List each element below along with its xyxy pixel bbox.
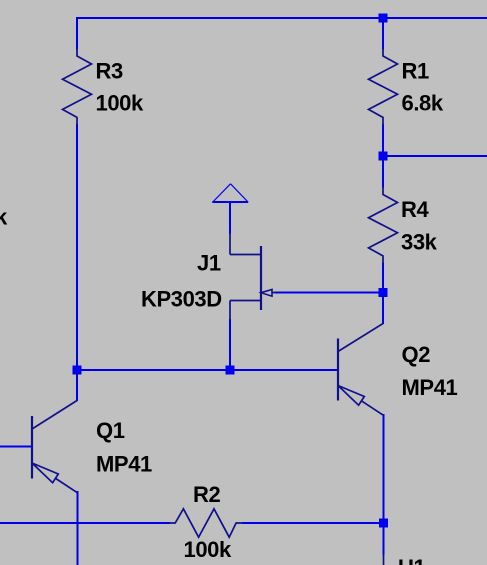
svg-text:Q1: Q1 [96, 418, 125, 443]
svg-text:U1: U1 [398, 555, 425, 565]
svg-text:6.8k: 6.8k [402, 91, 444, 116]
svg-text:MP41: MP41 [96, 452, 152, 477]
svg-text:R1: R1 [402, 59, 429, 84]
svg-text:100k: 100k [184, 537, 233, 562]
svg-text:R4: R4 [401, 197, 429, 222]
svg-text:MP41: MP41 [402, 375, 458, 400]
svg-text:Q2: Q2 [402, 342, 431, 367]
svg-text:k: k [0, 205, 8, 230]
svg-text:R2: R2 [193, 482, 220, 507]
svg-text:100k: 100k [96, 91, 145, 116]
svg-text:R3: R3 [96, 59, 123, 84]
svg-text:KP303D: KP303D [141, 287, 222, 312]
svg-text:33k: 33k [401, 230, 438, 255]
svg-text:J1: J1 [197, 251, 221, 276]
